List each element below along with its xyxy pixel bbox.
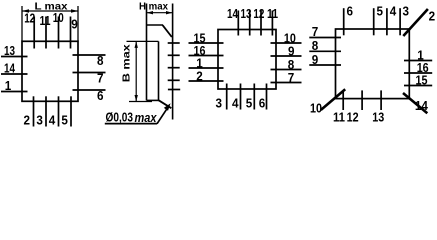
pin 3 lead (D3) <box>226 84 228 110</box>
svg-text:10: 10 <box>310 101 322 116</box>
dimension H max line <box>147 12 173 14</box>
dimension L max extension right <box>77 6 79 41</box>
pin 14 lead <box>1 73 28 75</box>
package body D1 <box>22 41 78 101</box>
svg-text:3: 3 <box>403 4 410 19</box>
body top chamfer lead <box>163 25 172 37</box>
dimension L max arrow right <box>71 9 78 13</box>
coplanarity underline <box>105 123 157 125</box>
svg-text:1: 1 <box>5 78 12 93</box>
lead tick 15 <box>168 42 180 44</box>
svg-text:14: 14 <box>415 98 429 113</box>
pin 5 lead (D4) <box>373 8 375 35</box>
dimension B extension bottom <box>129 101 152 103</box>
pin 6 lead (D3) <box>266 84 268 110</box>
pin 1 lead <box>1 91 28 93</box>
pin 9 lead <box>70 17 72 49</box>
pin 15 lead <box>189 42 224 44</box>
pin 11 lead <box>271 11 273 36</box>
pin 10 corner lead (D4) <box>321 89 345 110</box>
pin 7 lead (D3) <box>271 82 302 84</box>
pin 13 lead <box>249 11 251 36</box>
svg-text:2: 2 <box>429 8 436 23</box>
pin 16 lead (D4) <box>404 72 432 74</box>
pin 14 corner lead (D4) <box>403 93 427 113</box>
pin 13 lead (D4) <box>380 90 382 110</box>
package body D4 <box>336 29 410 99</box>
body seam line / B extension top <box>127 40 159 42</box>
pin 9 lead (D3) <box>271 55 302 57</box>
svg-text:5: 5 <box>61 113 68 128</box>
pin 2 corner lead (D4) <box>403 9 428 36</box>
dimension L max line <box>22 10 78 12</box>
dimension B max line <box>135 41 137 101</box>
package body D3 <box>218 30 276 90</box>
pin 6 lead <box>73 89 106 91</box>
svg-text:4: 4 <box>49 113 56 128</box>
svg-text:13: 13 <box>372 110 384 125</box>
dimension B max arrow bottom <box>135 95 138 102</box>
lead tick bottom <box>168 89 180 91</box>
pin 7 lead <box>73 72 106 74</box>
svg-text:13: 13 <box>241 6 252 21</box>
pin 4 lead <box>58 96 60 126</box>
pin 5 lead <box>70 96 72 126</box>
svg-text:7: 7 <box>312 24 319 39</box>
pin 16 lead <box>189 55 224 57</box>
svg-text:9: 9 <box>312 52 319 67</box>
pin 3 lead (D4) <box>399 8 401 35</box>
svg-text:4: 4 <box>390 4 397 19</box>
svg-text:14: 14 <box>227 6 239 21</box>
svg-text:3: 3 <box>36 113 43 128</box>
dimension L max arrow left <box>22 9 29 13</box>
svg-text:11: 11 <box>267 6 278 21</box>
pin 13 lead <box>1 56 28 58</box>
body right edge <box>158 41 160 100</box>
pin 9 lead (D4) <box>309 64 341 66</box>
svg-text:5: 5 <box>377 4 384 19</box>
pin 8 lead <box>73 54 106 56</box>
pin 2 lead <box>33 96 35 126</box>
pin 8 lead (D3) <box>271 69 302 71</box>
svg-text:13: 13 <box>4 43 15 58</box>
dimension H max arrow left <box>147 11 154 14</box>
lead row line + H extension right <box>172 4 174 120</box>
pin 11 lead (D4) <box>342 90 344 110</box>
svg-text:5: 5 <box>246 95 253 110</box>
svg-text:10: 10 <box>53 10 64 25</box>
pin 1 lead (D3) <box>189 67 224 69</box>
svg-text:7: 7 <box>97 70 104 85</box>
svg-text:B max: B max <box>121 44 133 82</box>
svg-text:12: 12 <box>253 6 264 21</box>
svg-text:12: 12 <box>24 10 35 25</box>
pin 4 lead (D4) <box>386 8 388 35</box>
svg-text:6: 6 <box>259 95 266 110</box>
pin 12 lead <box>33 17 35 49</box>
svg-text:8: 8 <box>312 38 319 53</box>
svg-text:2: 2 <box>196 68 203 83</box>
pin 14 lead <box>237 11 239 36</box>
dimension H max arrow right <box>166 11 173 14</box>
pin 12 lead (D4) <box>361 90 363 110</box>
svg-text:7: 7 <box>288 70 295 85</box>
pin 12 lead <box>260 11 262 36</box>
svg-text:11: 11 <box>40 13 51 28</box>
pin 5 lead (D3) <box>253 84 255 110</box>
svg-text:15: 15 <box>416 72 428 87</box>
svg-text:6: 6 <box>97 88 104 103</box>
body top edge <box>147 24 164 26</box>
svg-text:14: 14 <box>4 60 16 75</box>
pin 2 lead (D3) <box>189 80 224 82</box>
dimension B max arrow top <box>135 41 138 48</box>
pin 4 lead (D3) <box>240 84 242 110</box>
body bottom edge <box>147 99 159 101</box>
svg-text:4: 4 <box>232 95 239 110</box>
svg-text:8: 8 <box>97 53 104 68</box>
svg-text:11: 11 <box>333 110 345 125</box>
pin 6 lead (D4) <box>343 8 345 35</box>
pin 10 lead <box>58 17 60 49</box>
svg-text:3: 3 <box>216 95 223 110</box>
svg-text:Ø0,03: Ø0,03 <box>106 110 134 124</box>
body left edge + H extension <box>146 4 148 101</box>
pin 11 lead <box>45 17 47 49</box>
pin 7 lead (D4) <box>309 37 341 39</box>
svg-text:max: max <box>135 111 158 125</box>
lead tick 16 <box>168 54 180 56</box>
svg-text:6: 6 <box>347 4 354 19</box>
svg-text:2: 2 <box>24 113 31 128</box>
dimension L max extension left <box>21 6 23 41</box>
lead tick 2 <box>168 79 180 81</box>
svg-text:12: 12 <box>347 110 359 125</box>
pin 15 lead (D4) <box>404 85 432 87</box>
pin 10 lead (D3) <box>271 42 302 44</box>
pin 3 lead <box>45 96 47 126</box>
svg-text:9: 9 <box>71 16 78 31</box>
pin 8 lead (D4) <box>309 50 341 52</box>
body bottom chamfer lead <box>159 100 172 108</box>
svg-text:H max: H max <box>139 1 168 13</box>
lead tick 1 <box>168 67 180 69</box>
coplanarity leader arrow <box>157 107 168 124</box>
pin 1 lead (D4) <box>404 60 432 62</box>
